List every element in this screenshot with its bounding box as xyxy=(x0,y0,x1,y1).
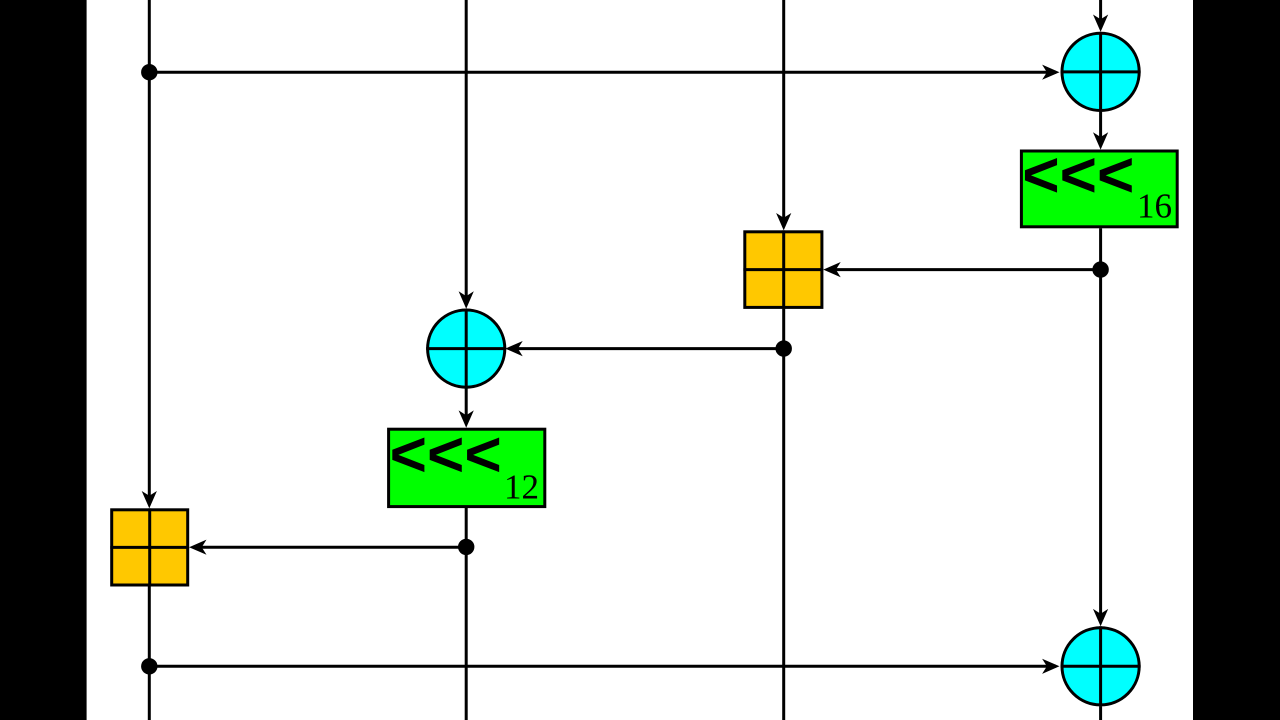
wire: horizontal H3 from node on column c to xor X2 xyxy=(505,341,783,356)
xor X2 (circle with cross, column b) xyxy=(426,309,506,389)
right black pillarbox bar xyxy=(1193,0,1280,720)
rotate box R16 (<<< 16, column d) xyxy=(1021,139,1177,227)
wire: column b segment xor X2 to rotate box R12 xyxy=(459,386,474,428)
left black pillarbox bar xyxy=(0,0,87,720)
wire: column c bottom segment below add box B1 xyxy=(782,309,785,720)
wire: column b bottom segment below rotate box R12 xyxy=(465,508,468,720)
junction node D2 on column d xyxy=(1092,261,1108,277)
wire: column a (x=149.3) top segment down to add box B2 xyxy=(142,0,157,508)
wire: column d bottom segment below xor X3 xyxy=(1099,706,1102,720)
wire: column b (x=466.2) top segment down to xor X2 xyxy=(459,0,474,309)
junction node D5 on column a xyxy=(141,658,157,674)
wire: column c (x=783.7) top segment down to add box B1 xyxy=(776,0,791,230)
wire: column d segment rotate box R16 down to xor X3 xyxy=(1093,228,1108,626)
junction node D3 on column c xyxy=(776,340,792,356)
add box B1 (squared plus, column c) xyxy=(743,230,823,308)
wire: horizontal H1 from node on column a to xor X1 xyxy=(149,65,1059,80)
svg-text:12: 12 xyxy=(504,468,539,507)
rotate box R12 (<<< 12, column b) xyxy=(389,418,545,507)
add box B2 (squared plus, column a) xyxy=(110,508,189,586)
wire: column d (x=1100.6) top segment down to xor X1 xyxy=(1093,0,1108,32)
xor X1 (circle with cross, column d top) xyxy=(1061,32,1141,112)
junction node D4 on column b xyxy=(458,539,474,555)
junction node D1 on column a xyxy=(141,64,157,80)
wire: horizontal H2 from node on column d to add box B1 xyxy=(823,262,1100,277)
wire: horizontal H4 from node on column b to add box B2 xyxy=(189,540,466,555)
svg-text:<<<: <<< xyxy=(1022,139,1134,211)
wire: column a bottom segment below add box B2 xyxy=(148,586,151,720)
svg-text:16: 16 xyxy=(1137,187,1172,226)
wire: column d segment xor X1 to rotate box R16 xyxy=(1093,112,1108,150)
wire: horizontal H5 from node on column a to xor X3 xyxy=(149,659,1059,674)
svg-text:<<<: <<< xyxy=(390,418,502,490)
xor X3 (circle with cross, column d bottom) xyxy=(1061,626,1141,706)
